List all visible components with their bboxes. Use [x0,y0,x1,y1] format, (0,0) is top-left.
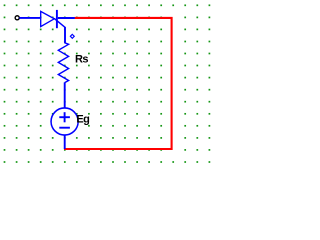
plus sign [59,116,70,118]
wire: vertical down to resistor [64,27,66,43]
wire: diagonal from diode junction down-right [54,18,65,27]
wire: terminal to diode anode [19,17,40,19]
wire: top red net from diode cathode to right, down and back to source minus [64,18,172,149]
svg-text:Eg: Eg [76,114,89,126]
resistor Rs zigzag [58,43,68,83]
voltage source Eg circle [51,108,78,135]
terminal VG1 input port [15,16,19,20]
svg-text:Rs: Rs [75,54,88,66]
wire: resistor to source [64,82,66,108]
wire: source bottom stub [64,135,66,149]
minus sign [59,127,70,129]
diode D1 cathode bar [56,10,58,28]
wire: cathode stub to red net [58,17,75,19]
grid dots [4,4,211,162]
node marker diamond [70,34,74,38]
diode D1 triangle [41,11,55,26]
